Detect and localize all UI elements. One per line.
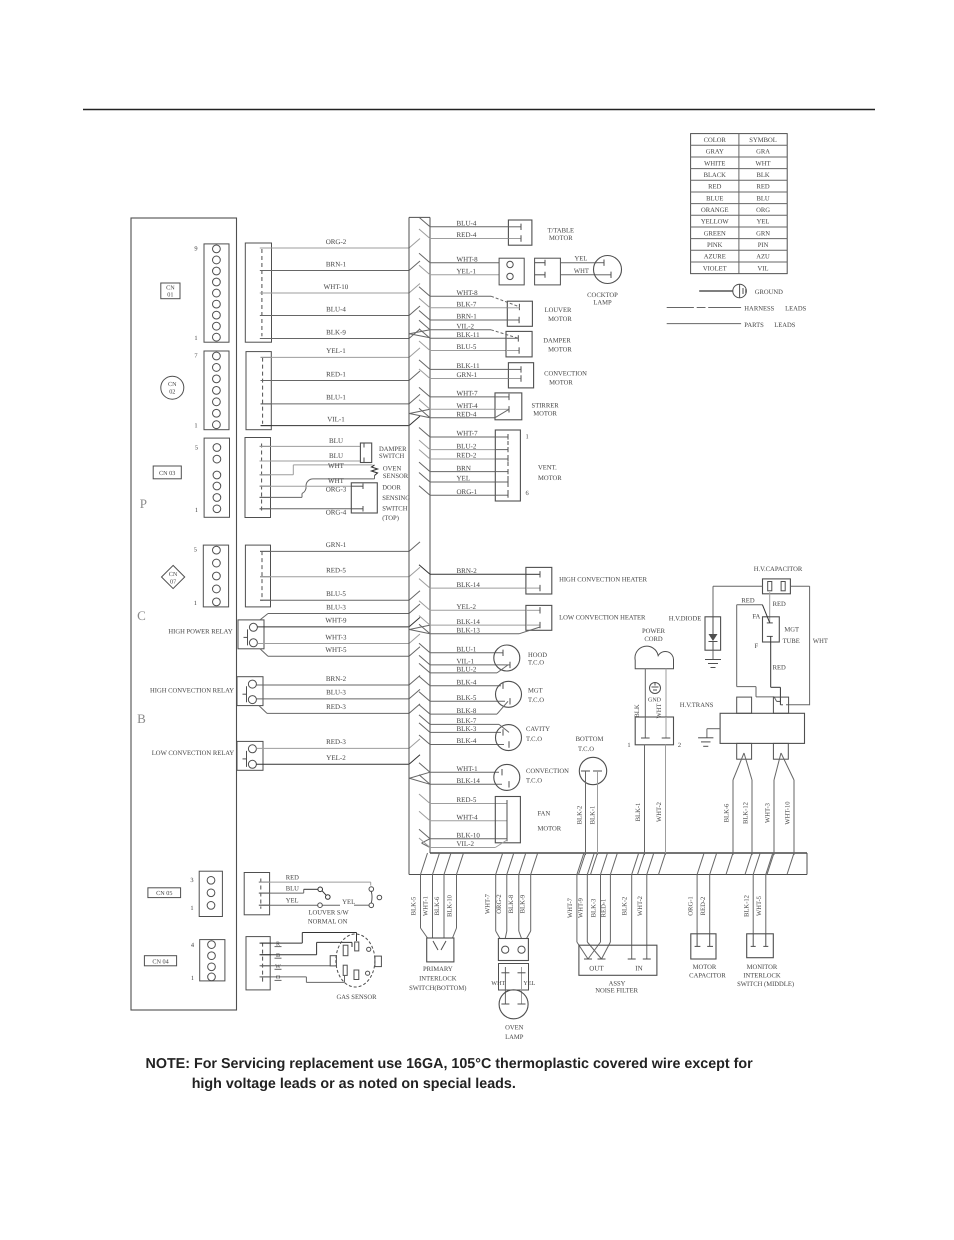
harness connector for CN07 [245, 545, 270, 607]
svg-text:BLK-2: BLK-2 [577, 806, 584, 825]
board letter C [137, 608, 146, 623]
svg-text:GND: GND [648, 698, 662, 704]
svg-text:ASSY: ASSY [609, 980, 626, 987]
wire WHT-7 (bus to component) [419, 428, 495, 438]
svg-text:BLK-5: BLK-5 [411, 896, 418, 915]
svg-text:VIL-1: VIL-1 [327, 415, 345, 423]
svg-text:BLU-3: BLU-3 [326, 689, 346, 697]
low convection heater [519, 605, 646, 633]
svg-text:YEL: YEL [342, 899, 355, 906]
svg-text:MOTOR: MOTOR [533, 411, 557, 418]
central harness bus bundle [409, 217, 430, 874]
wire BLU-5 (board to harness bus) [260, 590, 420, 600]
svg-text:WHT: WHT [574, 268, 589, 275]
svg-text:DAMPER: DAMPER [543, 337, 571, 344]
wire WHT-1 (bus to component) [419, 763, 499, 773]
svg-text:BLK-12: BLK-12 [743, 895, 750, 917]
svg-text:RED-5: RED-5 [457, 796, 477, 804]
svg-text:BLUE: BLUE [706, 195, 723, 202]
svg-text:WHT-2: WHT-2 [656, 802, 663, 822]
svg-text:NOISE FILTER: NOISE FILTER [595, 988, 638, 995]
svg-text:(TOP): (TOP) [382, 515, 399, 522]
wire magnetron F to transformer (RED) [771, 636, 786, 704]
svg-text:BLK-3: BLK-3 [457, 725, 477, 733]
svg-text:1: 1 [194, 423, 197, 430]
svg-text:B: B [137, 711, 146, 726]
svg-text:WHT: WHT [756, 160, 771, 167]
svg-text:IN: IN [635, 964, 642, 972]
wire WHT-4 (bus to component) [419, 811, 507, 821]
connector CN02 pin header [194, 351, 229, 430]
wire capacitor to magnetron FA [741, 592, 786, 623]
svg-text:BRN-2: BRN-2 [326, 675, 347, 683]
harness connector for louver switch [244, 873, 269, 915]
svg-text:BLK-6: BLK-6 [434, 896, 441, 915]
wire BRN (bus to component) [419, 462, 495, 472]
svg-text:ORG-1: ORG-1 [457, 488, 478, 496]
svg-text:5: 5 [194, 547, 197, 554]
svg-text:YEL: YEL [286, 898, 299, 905]
svg-text:GAS SENSOR: GAS SENSOR [336, 994, 377, 1001]
svg-text:MOTOR: MOTOR [548, 316, 572, 323]
svg-text:BLK-10: BLK-10 [457, 831, 481, 839]
wire BRN-2 (relay to harness bus) [256, 675, 420, 685]
svg-text:MOTOR: MOTOR [548, 347, 572, 354]
svg-text:CN 03: CN 03 [159, 470, 175, 477]
svg-text:RED-2: RED-2 [700, 897, 707, 916]
wire BLU lower to damper switch [260, 452, 361, 461]
low convection relay [152, 741, 263, 770]
svg-text:1: 1 [191, 975, 194, 982]
svg-text:high voltage leads or as noted: high voltage leads or as noted on specia… [192, 1076, 516, 1092]
svg-text:WHT-3: WHT-3 [325, 633, 347, 641]
wire WHT-5 (relay to harness bus) [260, 646, 420, 656]
svg-text:BLK-1: BLK-1 [635, 803, 642, 822]
board letter B [137, 711, 146, 726]
svg-text:01: 01 [167, 292, 173, 299]
svg-text:3: 3 [190, 877, 193, 884]
wire W to gas sensor [260, 965, 331, 967]
svg-text:LOUVER: LOUVER [545, 307, 572, 314]
svg-text:YEL-1: YEL-1 [457, 268, 477, 276]
oven lamp socket [491, 964, 535, 1005]
svg-text:BLK-8: BLK-8 [508, 894, 515, 913]
wire BLK-5 (bus to component) [419, 692, 505, 702]
motor capacitor wires [687, 875, 709, 934]
connector CN02 label [161, 376, 184, 399]
svg-text:WHT-2: WHT-2 [637, 896, 644, 916]
svg-text:T.C.O: T.C.O [528, 659, 544, 666]
h.v. diode [669, 616, 721, 651]
svg-text:BLU-4: BLU-4 [457, 220, 477, 228]
wire label BLK-2 [577, 806, 584, 825]
wire BLK-14 (bus to component) [419, 616, 526, 626]
svg-text:HOOD: HOOD [528, 652, 547, 659]
svg-text:SENSING: SENSING [382, 495, 410, 502]
svg-text:6: 6 [526, 490, 529, 497]
svg-text:TUBE: TUBE [783, 638, 800, 645]
oven lamp connector [498, 939, 528, 961]
harness connector for gas sensor [246, 937, 270, 990]
svg-text:RED: RED [773, 665, 786, 672]
svg-text:WHITE: WHITE [704, 160, 725, 167]
svg-text:BRN-1: BRN-1 [326, 260, 347, 268]
svg-text:9: 9 [194, 245, 197, 252]
wire WHT return from oven sensor [260, 476, 375, 498]
svg-text:1: 1 [526, 434, 529, 441]
svg-text:BLK-8: BLK-8 [457, 707, 477, 715]
wire YEL to cocktop lamp [560, 255, 597, 262]
connector CN03 pin header [195, 438, 230, 517]
connector CN04 label [144, 956, 176, 966]
svg-text:P: P [140, 496, 147, 511]
svg-text:BLU-2: BLU-2 [457, 666, 477, 674]
wire capacitor to transformer (WHT) [786, 586, 828, 705]
wire BLK-11 (bus to component) [419, 360, 508, 370]
wire BLK-9 (board to harness bus) [260, 328, 420, 338]
wire BRN-1 (bus to component) [419, 311, 507, 321]
svg-text:WHT-8: WHT-8 [457, 255, 479, 263]
svg-text:OUT: OUT [589, 964, 604, 972]
svg-text:CONVECTION: CONVECTION [526, 768, 569, 775]
svg-text:BLK-14: BLK-14 [457, 777, 481, 785]
svg-text:BLU-5: BLU-5 [457, 343, 477, 351]
high power relay [168, 620, 264, 649]
h.v. transformer ground [698, 729, 720, 747]
svg-text:MOTOR: MOTOR [538, 826, 562, 833]
svg-text:AZURE: AZURE [704, 254, 726, 261]
wire BLK-11 (bus to component) [419, 329, 506, 339]
svg-text:BLK-3: BLK-3 [591, 898, 598, 917]
svg-text:YEL: YEL [457, 475, 471, 483]
svg-text:BLU-3: BLU-3 [326, 603, 346, 611]
magnetron tube [752, 614, 799, 651]
svg-text:RED-1: RED-1 [326, 370, 346, 378]
svg-text:YELLOW: YELLOW [701, 219, 730, 226]
svg-text:H.V.TRANS: H.V.TRANS [680, 702, 714, 709]
wire BLK-7 (bus to component) [419, 715, 499, 725]
wire BLK-13 (bus to component) [419, 624, 519, 634]
bottom harness band [409, 853, 807, 875]
connector CN03 label [153, 466, 181, 479]
power cord plug [635, 628, 674, 669]
svg-text:CN: CN [166, 285, 175, 292]
svg-text:LOW CONVECTION RELAY: LOW CONVECTION RELAY [152, 750, 235, 757]
wire YEL-1 (board to harness bus) [261, 347, 420, 357]
transformer secondary wires to band [724, 753, 795, 855]
svg-text:HIGH CONVECTION RELAY: HIGH CONVECTION RELAY [150, 688, 234, 695]
wire WHT to cocktop lamp [560, 268, 597, 275]
svg-text:BLU-1: BLU-1 [326, 394, 346, 402]
wire GRN-1 (board to harness bus) [260, 541, 420, 551]
svg-text:WHT-10: WHT-10 [324, 283, 349, 291]
harness connector for CN02 [246, 352, 271, 430]
svg-text:SWITCH(BOTTOM): SWITCH(BOTTOM) [409, 985, 466, 992]
wire BLU-4 (bus to component) [419, 217, 508, 227]
connector CN01 pin header [194, 244, 229, 342]
motor capacitor [689, 934, 726, 980]
svg-text:BLK-5: BLK-5 [457, 694, 477, 702]
noise filter input wires [567, 875, 647, 960]
band wire crossing ticks [421, 853, 795, 875]
svg-text:WHT-1: WHT-1 [457, 765, 479, 773]
svg-text:RED-4: RED-4 [457, 410, 477, 418]
svg-text:SENSOR: SENSOR [383, 473, 409, 480]
svg-text:HARNESS: HARNESS [744, 305, 774, 312]
wire YEL-2 (relay to harness bus) [256, 754, 420, 764]
svg-text:1: 1 [627, 742, 630, 749]
svg-text:YEL-2: YEL-2 [326, 754, 346, 762]
svg-text:RED: RED [773, 601, 786, 608]
svg-text:C: C [137, 608, 146, 623]
svg-text:H.V.CAPACITOR: H.V.CAPACITOR [754, 566, 803, 573]
svg-text:LAMP: LAMP [505, 1034, 524, 1041]
oven lamp [499, 990, 528, 1041]
oven lamp connector wires [485, 875, 531, 939]
svg-text:BLK-14: BLK-14 [457, 618, 481, 626]
wire VIL-1 (bus to component) [419, 655, 504, 665]
svg-text:1: 1 [194, 335, 197, 342]
harness connector for CN03 [245, 438, 271, 518]
svg-text:BLK-9: BLK-9 [326, 328, 346, 336]
wire RED-1 (board to harness bus) [261, 370, 420, 380]
connector CN07 pin header [194, 545, 229, 607]
convection motor [508, 363, 587, 388]
svg-text:GROUND: GROUND [755, 289, 783, 296]
cavity thermal cutout [496, 724, 551, 750]
svg-text:AZU: AZU [756, 254, 770, 261]
svg-text:DAMPER: DAMPER [379, 446, 407, 453]
note text [146, 1056, 754, 1092]
svg-text:WHT-5: WHT-5 [325, 646, 347, 654]
svg-text:ORANGE: ORANGE [701, 207, 728, 214]
color-symbol legend table [691, 134, 788, 274]
svg-text:WHT-4: WHT-4 [457, 402, 479, 410]
monitor interlock switch [737, 934, 794, 988]
svg-text:YEL: YEL [523, 980, 535, 987]
svg-text:RED-2: RED-2 [457, 452, 477, 460]
svg-text:PIN: PIN [758, 242, 769, 249]
svg-text:PINK: PINK [707, 242, 723, 249]
svg-text:BLU: BLU [329, 437, 343, 445]
wire YEL-2 (bus to component) [419, 601, 526, 611]
wire BLK-3 (bus to component) [419, 723, 501, 733]
bottom thermal cutout [576, 736, 607, 855]
vent motor [495, 430, 562, 501]
svg-text:07: 07 [170, 579, 176, 586]
svg-text:GRN-1: GRN-1 [457, 371, 478, 379]
wire BLU-5 (bus to component) [419, 341, 506, 351]
svg-text:WHT-4: WHT-4 [457, 814, 479, 822]
convection thermal cutout [494, 764, 569, 790]
svg-text:WHT-7: WHT-7 [567, 897, 574, 918]
wire magnetron FA loop (RED) [737, 605, 780, 702]
svg-text:BRN: BRN [457, 464, 471, 472]
svg-text:FA: FA [752, 614, 760, 621]
louver switch contacts [308, 887, 382, 926]
harness leads legend [667, 305, 807, 312]
svg-text:GRN: GRN [756, 230, 770, 237]
svg-text:CN 04: CN 04 [152, 958, 168, 965]
svg-text:ORG-2: ORG-2 [496, 894, 503, 913]
svg-text:WHT: WHT [813, 638, 828, 645]
wire WHT-10 (board to harness bus) [260, 283, 420, 293]
connector CN07 diamond label [162, 565, 185, 588]
svg-text:OVEN: OVEN [505, 1025, 524, 1032]
svg-text:MOTOR: MOTOR [538, 475, 562, 482]
wire BLK-10 (bus to component) [419, 829, 507, 839]
magnetron thermal cutout [496, 681, 545, 714]
svg-text:SWITCH: SWITCH [382, 505, 408, 512]
wire ORG-4 to door sensing switch [260, 509, 352, 517]
svg-text:NOTE: For Servicing replacemen: NOTE: For Servicing replacement use 16GA… [146, 1056, 754, 1072]
svg-text:WHT-9: WHT-9 [325, 617, 347, 625]
svg-text:ORG: ORG [756, 207, 770, 214]
parts leads legend [667, 322, 796, 329]
svg-text:WHT-7: WHT-7 [457, 390, 479, 398]
svg-text:MOTOR: MOTOR [549, 380, 573, 387]
wire BLK-7 (bus to component) [419, 298, 507, 308]
wire RED-3 (relay to harness bus) [256, 738, 420, 748]
svg-text:WHT-9: WHT-9 [577, 897, 584, 918]
svg-text:BLK-4: BLK-4 [457, 678, 477, 686]
svg-text:RED-4: RED-4 [457, 231, 477, 239]
cocktop lamp connector [499, 258, 560, 285]
wire BRN-1 (board to harness bus) [260, 260, 420, 270]
wire O to gas sensor [260, 976, 345, 982]
high convection heater [526, 567, 648, 594]
svg-text:BLU: BLU [329, 452, 343, 460]
svg-text:BLK-12: BLK-12 [743, 802, 750, 824]
svg-text:1: 1 [195, 507, 198, 514]
svg-text:COCKTOP: COCKTOP [587, 292, 618, 299]
svg-text:BLU-2: BLU-2 [457, 442, 477, 450]
louver motor [491, 296, 572, 326]
svg-text:RED-1: RED-1 [600, 899, 607, 918]
wire BLU-1 (bus to component) [419, 643, 500, 653]
svg-text:VIL-2: VIL-2 [457, 840, 475, 848]
svg-text:BOTTOM: BOTTOM [576, 736, 604, 743]
wire YEL (bus to component) [419, 473, 495, 483]
svg-text:02: 02 [169, 389, 175, 396]
svg-text:RED-3: RED-3 [326, 738, 346, 746]
wire BLK-8 (bus to component) [419, 705, 497, 715]
svg-text:GRA: GRA [756, 149, 770, 156]
svg-text:PRIMARY: PRIMARY [423, 966, 453, 973]
svg-text:RED: RED [741, 598, 754, 605]
svg-text:VIL: VIL [758, 265, 769, 272]
svg-text:BLK-7: BLK-7 [457, 301, 477, 309]
svg-text:RED-5: RED-5 [326, 567, 346, 575]
svg-text:CONVECTION: CONVECTION [544, 370, 587, 377]
svg-text:INTERLOCK: INTERLOCK [419, 975, 457, 982]
svg-text:BLK-4: BLK-4 [457, 737, 477, 745]
svg-text:ORG-3: ORG-3 [326, 486, 347, 494]
svg-text:BLK-10: BLK-10 [447, 894, 454, 917]
wire BRN-2 (bus to component) [419, 565, 526, 575]
wire RED to louver switch [260, 875, 371, 886]
svg-text:BLU: BLU [756, 195, 769, 202]
svg-text:GRN-1: GRN-1 [326, 541, 347, 549]
svg-text:1: 1 [194, 600, 197, 607]
wire RED-5 (board to harness bus) [260, 567, 420, 577]
wire VIL-2 (bus to component) [419, 320, 491, 330]
svg-text:BLK: BLK [634, 704, 641, 717]
connector CN05 label [148, 888, 181, 898]
wire BLU-3 (relay to harness bus) [260, 603, 420, 620]
wire BLK-14 (bus to component) [419, 579, 526, 589]
power cord terminal block [627, 717, 681, 855]
wire VIL-1 (board to harness bus) [261, 415, 420, 425]
svg-text:WHT: WHT [491, 980, 505, 987]
svg-text:WHT-8: WHT-8 [457, 289, 479, 297]
bus wire-pair merge arrows [409, 330, 430, 848]
top horizontal rule [83, 109, 875, 111]
svg-text:WHT-7: WHT-7 [457, 430, 479, 438]
svg-text:MOTOR: MOTOR [549, 235, 573, 242]
svg-text:WHT-3: WHT-3 [765, 802, 772, 823]
svg-text:CAPACITOR: CAPACITOR [689, 973, 726, 980]
svg-text:RED-3: RED-3 [326, 703, 346, 711]
svg-text:INTERLOCK: INTERLOCK [743, 972, 781, 979]
connector CN04 pin header [191, 940, 225, 982]
svg-text:YEL-1: YEL-1 [326, 347, 346, 355]
wire BLU-3 (relay to harness bus) [256, 689, 420, 699]
svg-text:SWITCH (MIDDLE): SWITCH (MIDDLE) [737, 981, 794, 988]
monitor interlock wires [743, 875, 765, 934]
svg-text:5: 5 [195, 445, 198, 452]
svg-text:GRAY: GRAY [706, 149, 724, 156]
svg-text:LOUVER S/W: LOUVER S/W [309, 910, 350, 917]
svg-text:GREEN: GREEN [704, 230, 726, 237]
svg-text:T.C.O: T.C.O [528, 697, 544, 704]
primary interlock switch wires [411, 875, 457, 939]
svg-text:RED: RED [756, 184, 769, 191]
wire BLU to louver switch [260, 886, 318, 893]
svg-text:WHT-5: WHT-5 [756, 895, 763, 916]
svg-text:BLK-9: BLK-9 [520, 894, 527, 913]
svg-text:HIGH CONVECTION HEATER: HIGH CONVECTION HEATER [559, 577, 648, 584]
hood thermal cutout [494, 645, 547, 673]
svg-text:VIOLET: VIOLET [703, 265, 727, 272]
svg-text:BLU: BLU [286, 886, 299, 893]
svg-text:BLK-1: BLK-1 [590, 806, 597, 825]
svg-text:VIL-1: VIL-1 [457, 658, 475, 666]
wire BLU to damper switch [260, 437, 361, 446]
svg-text:YEL: YEL [757, 219, 770, 226]
wire BLK-4 (bus to component) [419, 676, 501, 686]
svg-text:MONITOR: MONITOR [747, 964, 778, 971]
wire BLK-14 (bus to component) [419, 775, 502, 785]
svg-text:BLK-11: BLK-11 [457, 362, 481, 370]
svg-text:BLK-7: BLK-7 [457, 717, 477, 725]
wire RED-3 (relay to harness bus) [259, 703, 420, 713]
svg-text:LOW CONVECTION HEATER: LOW CONVECTION HEATER [559, 615, 646, 622]
wire WHT-9 (relay to harness bus) [257, 617, 420, 627]
wire BLU-1 (board to harness bus) [261, 394, 420, 404]
svg-text:BLU-5: BLU-5 [326, 590, 346, 598]
wire BLK-4 (bus to component) [419, 735, 504, 745]
svg-text:PARTS: PARTS [744, 322, 764, 329]
board letter P [140, 496, 147, 511]
high convection relay [150, 677, 263, 706]
svg-text:BRN-1: BRN-1 [457, 313, 478, 321]
svg-text:BRN-2: BRN-2 [457, 567, 478, 575]
wire RED-4 (bus to component) [419, 229, 508, 239]
oven sensor [372, 465, 409, 480]
wire ORG-2 (board to harness bus) [260, 238, 420, 248]
svg-text:ORG-1: ORG-1 [687, 896, 694, 915]
